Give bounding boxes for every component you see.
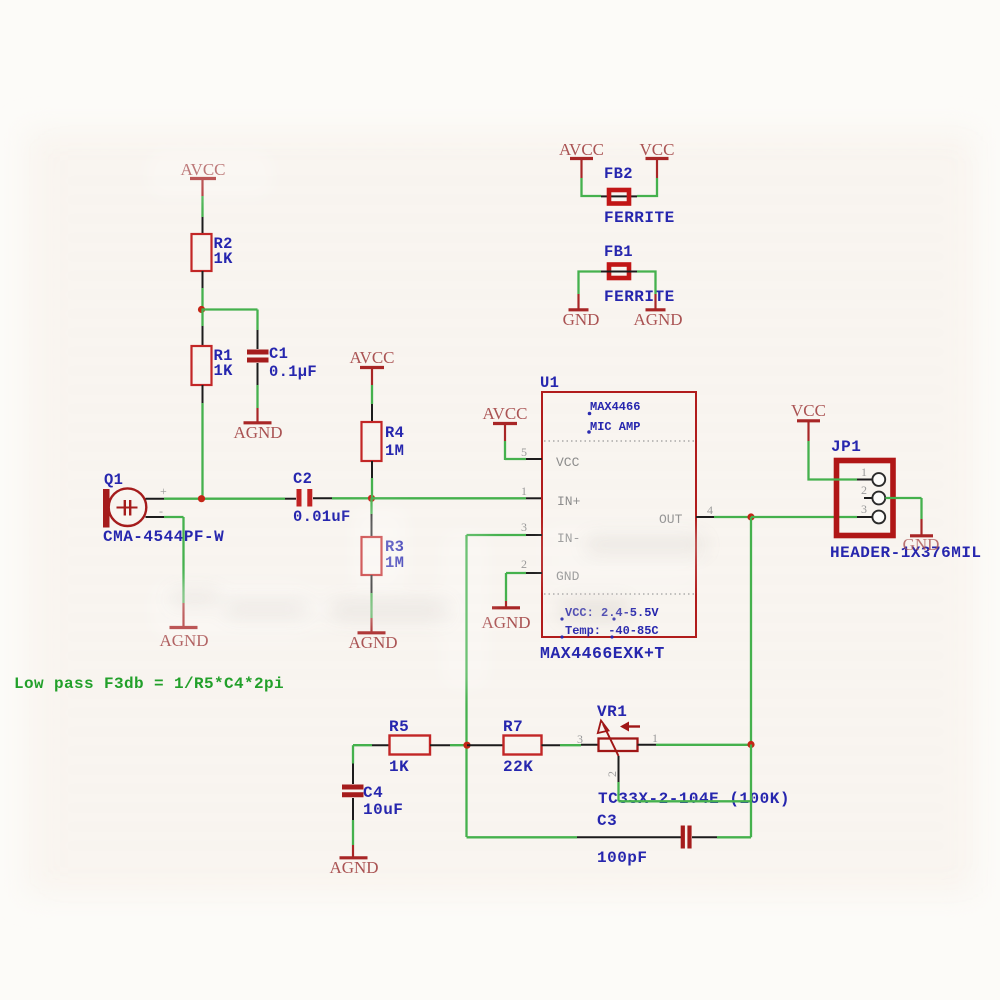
svg-text:1M: 1M xyxy=(385,442,404,460)
potentiometer VR1 TC33X-2-104E xyxy=(577,703,790,808)
wire AVCC to R2 xyxy=(201,196,203,234)
svg-text:AGND: AGND xyxy=(329,858,378,877)
svg-text:3: 3 xyxy=(577,732,583,746)
svg-text:GND: GND xyxy=(563,310,600,329)
svg-text:U1: U1 xyxy=(540,374,559,392)
capacitor C1 0.1uF xyxy=(247,345,317,381)
svg-text:AVCC: AVCC xyxy=(349,348,394,367)
wire VCC to JP1 pin1 xyxy=(809,441,873,480)
svg-text:10uF: 10uF xyxy=(363,801,403,819)
wire C4 node to R5 xyxy=(353,744,390,746)
pin 2 (JP1) xyxy=(861,483,885,504)
resistor R1 xyxy=(192,346,234,385)
svg-text:C2: C2 xyxy=(293,470,312,488)
ferrite bead FB2 xyxy=(604,165,675,227)
svg-text:+: + xyxy=(160,484,167,498)
node junction R1/R2/C1 xyxy=(198,306,205,313)
pin 3 IN- xyxy=(467,520,543,535)
svg-text:AVCC: AVCC xyxy=(482,404,527,423)
svg-text:AVCC: AVCC xyxy=(559,140,604,159)
svg-text:1K: 1K xyxy=(214,362,234,380)
svg-text:IN+: IN+ xyxy=(557,494,581,509)
node junction VR1/OUT xyxy=(747,741,754,748)
svg-text:Q1: Q1 xyxy=(104,471,123,489)
header JP1 HEADER-1X376MIL xyxy=(830,438,982,562)
resistor R2 xyxy=(192,234,234,271)
svg-text:1K: 1K xyxy=(389,758,409,776)
wire OUT net down to C3 xyxy=(750,745,752,838)
svg-text:2: 2 xyxy=(521,557,527,571)
wire mic - terminal to AGND xyxy=(146,517,184,627)
wire OUT to JP1 pin3 xyxy=(751,516,872,518)
wire R1 to mic node xyxy=(202,385,204,499)
op-amp U1 MAX4466EXK+T xyxy=(540,374,696,663)
svg-text:100pF: 100pF xyxy=(597,849,648,867)
pin 1 (JP1) xyxy=(861,465,885,486)
svg-text:FB2: FB2 xyxy=(604,165,633,183)
svg-text:AGND: AGND xyxy=(348,633,397,652)
power AVCC (above R4) xyxy=(349,348,394,385)
svg-text:MAX4466: MAX4466 xyxy=(590,400,640,414)
resistor R4 xyxy=(362,422,405,461)
capacitor C2 0.01uF xyxy=(293,470,351,526)
ground AGND (under mic) xyxy=(159,628,208,651)
svg-text:TC33X-2-104E (100K): TC33X-2-104E (100K) xyxy=(598,790,790,808)
svg-text:0.1µF: 0.1µF xyxy=(269,363,317,381)
watermark smudges (faint) xyxy=(170,536,705,620)
microphone Q1 CMA-4544PF-W xyxy=(103,471,224,546)
svg-text:1: 1 xyxy=(652,731,658,745)
svg-text:R4: R4 xyxy=(385,424,404,442)
svg-text:MAX4466EXK+T: MAX4466EXK+T xyxy=(540,644,665,663)
power VCC (FB2 right) xyxy=(640,140,675,178)
wire GND-FB1-AGND xyxy=(579,272,656,310)
node junction mic/R1 xyxy=(198,495,205,502)
wire R2 to node xyxy=(202,271,204,310)
svg-text:22K: 22K xyxy=(503,758,533,776)
resistor R3 xyxy=(362,537,405,575)
wire AVCC to R4 xyxy=(371,385,373,422)
ground AGND (FB1 right) xyxy=(633,310,682,329)
svg-text:C3: C3 xyxy=(597,812,617,830)
capacitor C4 10uF xyxy=(342,784,403,819)
pin 3 (JP1) xyxy=(861,502,885,523)
svg-text:FB1: FB1 xyxy=(604,243,633,261)
capacitor C3 100pF xyxy=(597,812,690,867)
ground GND (FB1 left) xyxy=(563,310,600,329)
svg-text:4: 4 xyxy=(707,503,713,517)
node junction C2/R4/R3/IN+ xyxy=(368,495,375,502)
wire JP1 pin2 to GND xyxy=(885,498,921,535)
svg-text:MIC AMP: MIC AMP xyxy=(590,420,640,434)
svg-text:1: 1 xyxy=(861,465,867,479)
wire R5 to node xyxy=(430,744,467,746)
wire node to R3 xyxy=(370,498,372,537)
svg-text:FERRITE: FERRITE xyxy=(604,288,675,306)
ground AGND (U1 pin2) xyxy=(481,608,530,632)
wire node to U1 pin1 xyxy=(372,497,543,499)
resistor R5 xyxy=(389,718,430,776)
ground AGND (under R3) xyxy=(348,633,397,652)
svg-text:GND: GND xyxy=(903,535,940,554)
svg-text:5: 5 xyxy=(521,445,527,459)
wire R5 node down to C4 xyxy=(352,745,354,784)
svg-text:VCC: VCC xyxy=(640,140,675,159)
wire AVCC-FB2-VCC xyxy=(582,178,658,196)
wire VR1 pin1 to OUT net xyxy=(638,744,752,746)
svg-text:Low pass F3db = 1/R5*C4*2pi: Low pass F3db = 1/R5*C4*2pi xyxy=(14,675,284,693)
pin 4 OUT xyxy=(696,503,751,517)
wire IN- net to C3 xyxy=(467,836,682,838)
wire C1 to AGND xyxy=(257,363,259,422)
power AVCC (FB2 left) xyxy=(559,140,604,178)
wire C3 to OUT net xyxy=(692,836,751,838)
wire C2 to node xyxy=(313,497,372,499)
ground AGND (under C1) xyxy=(233,423,282,442)
node junction OUT xyxy=(747,513,754,520)
svg-text:R7: R7 xyxy=(503,718,523,736)
node junction R5/R7/IN- xyxy=(463,742,470,749)
svg-text:AGND: AGND xyxy=(233,423,282,442)
ferrite bead FB1 xyxy=(604,243,675,306)
svg-text:1K: 1K xyxy=(214,250,234,268)
wire C4 to AGND xyxy=(352,798,354,857)
ground GND (JP1 pin2) xyxy=(903,535,940,554)
wire node to R7 xyxy=(467,744,504,746)
svg-text:JP1: JP1 xyxy=(831,438,861,456)
wire mic + terminal xyxy=(146,498,297,500)
wire R3 to AGND xyxy=(371,575,373,632)
svg-text:C1: C1 xyxy=(269,345,288,363)
svg-text:VCC: VCC xyxy=(556,455,580,470)
svg-text:R5: R5 xyxy=(389,718,409,736)
wire R4 to node xyxy=(371,461,373,498)
ground AGND (under C4) xyxy=(329,858,378,877)
svg-text:C4: C4 xyxy=(363,784,383,802)
wire OUT feedback (vertical) xyxy=(750,517,752,745)
watermark haze overlays xyxy=(145,148,700,690)
svg-text:3: 3 xyxy=(521,520,527,534)
wire node to C1 xyxy=(202,310,258,350)
svg-text:-: - xyxy=(159,504,163,518)
power VCC (JP1) xyxy=(791,401,826,441)
svg-text:VR1: VR1 xyxy=(597,703,627,721)
wire IN- feedback (vertical) xyxy=(465,535,467,837)
power AVCC (U1 pin5) xyxy=(482,404,527,460)
svg-text:FERRITE: FERRITE xyxy=(604,209,675,227)
svg-text:2: 2 xyxy=(605,771,619,777)
svg-text:VCC: VCC xyxy=(791,401,826,420)
svg-text:AGND: AGND xyxy=(633,310,682,329)
svg-text:3: 3 xyxy=(861,502,867,516)
resistor R7 xyxy=(503,718,542,776)
svg-text:0.01uF: 0.01uF xyxy=(293,508,351,526)
svg-text:2: 2 xyxy=(861,483,867,497)
wire VR1 pin2 (wiper) xyxy=(619,756,752,801)
wire node to R1 xyxy=(201,310,203,347)
svg-text:CMA-4544PF-W: CMA-4544PF-W xyxy=(103,528,224,546)
wire R7 to VR1 pin3 xyxy=(542,744,599,746)
pin 5 VCC xyxy=(505,445,542,459)
svg-text:1: 1 xyxy=(521,484,527,498)
power AVCC (top left) xyxy=(180,160,225,196)
pin 2 GND xyxy=(506,557,542,607)
